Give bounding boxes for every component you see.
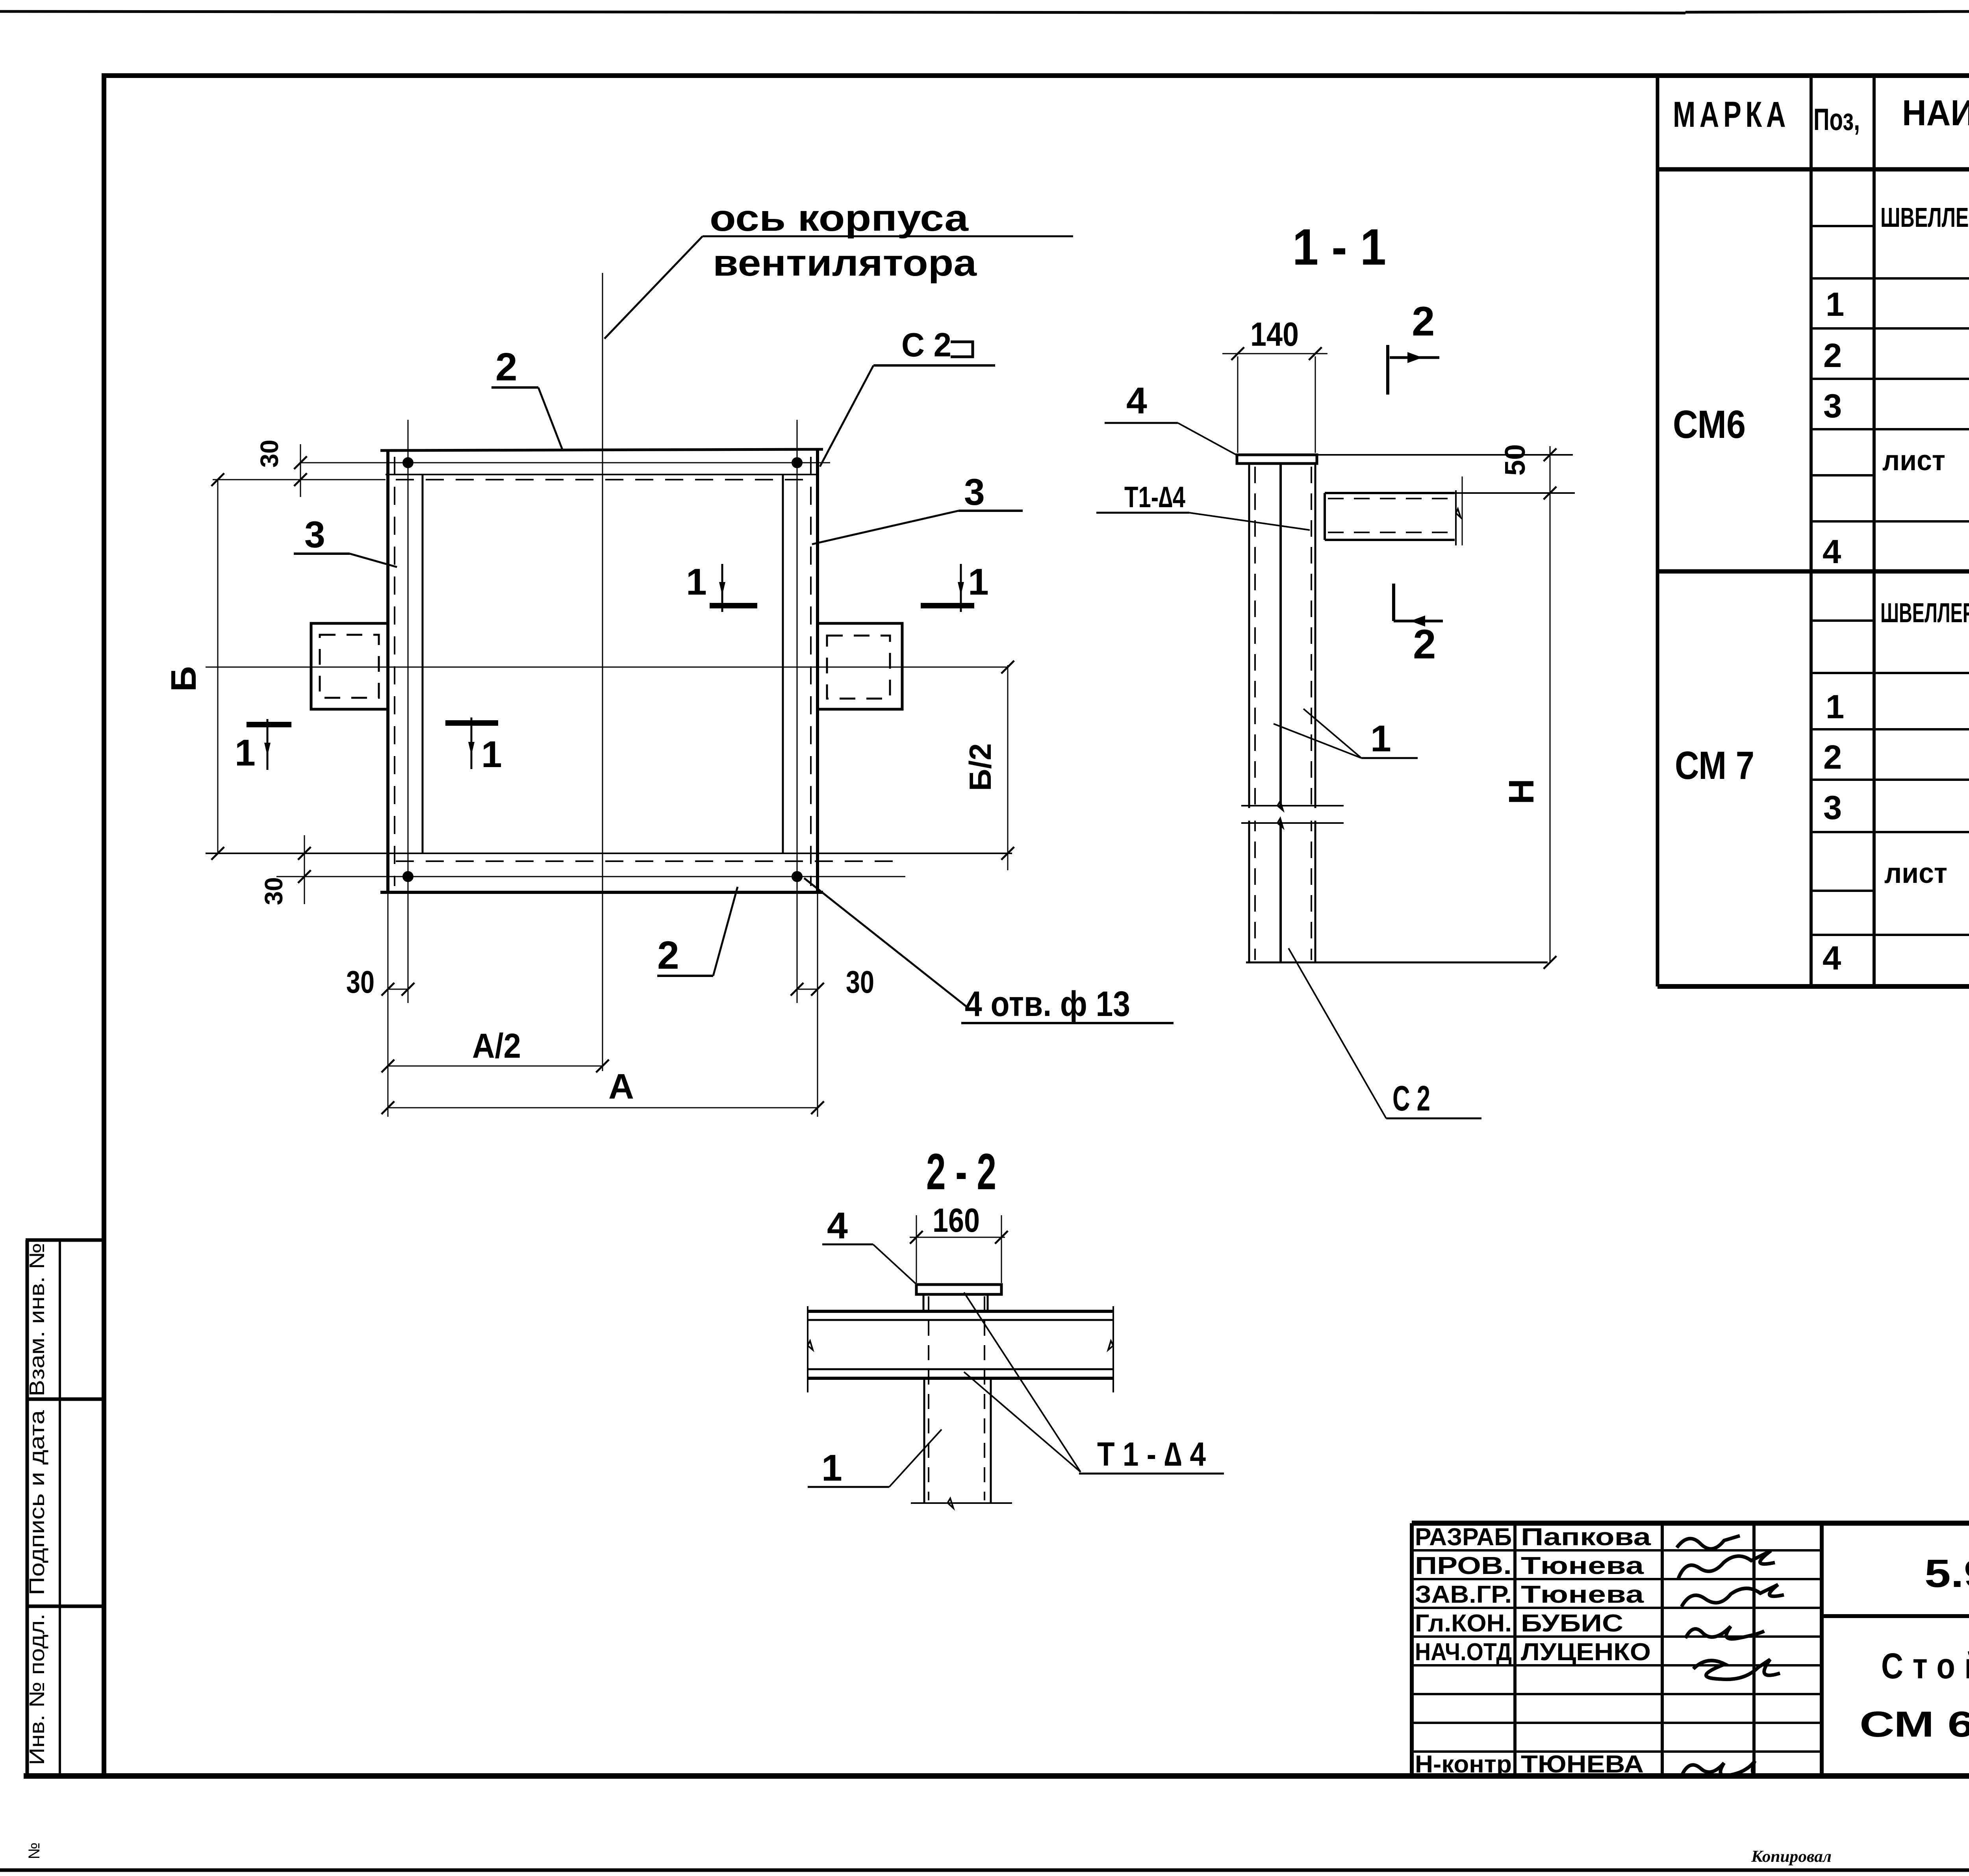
svg-text:30: 30 bbox=[255, 439, 284, 467]
svg-text:1: 1 bbox=[1826, 688, 1844, 726]
svg-text:Инв. № подл.: Инв. № подл. bbox=[25, 1614, 49, 1765]
svg-text:Папкова: Папкова bbox=[1521, 1524, 1651, 1551]
svg-text:Стойка: Стойка bbox=[1881, 1646, 1969, 1686]
svg-text:3: 3 bbox=[304, 514, 325, 556]
svg-text:Тюнева: Тюнева bbox=[1521, 1552, 1644, 1579]
svg-text:2: 2 bbox=[657, 933, 679, 977]
svg-text:СМ 7: СМ 7 bbox=[1675, 743, 1754, 788]
svg-text:Б: Б bbox=[164, 666, 204, 692]
svg-text:4: 4 bbox=[1126, 380, 1147, 422]
svg-text:№: № bbox=[26, 1843, 43, 1859]
svg-text:СМ6: СМ6 bbox=[1673, 402, 1746, 447]
svg-text:ТЮНЕВА: ТЮНЕВА bbox=[1521, 1751, 1644, 1778]
svg-text:1: 1 bbox=[821, 1447, 842, 1489]
svg-text:2: 2 bbox=[1412, 298, 1435, 345]
svg-text:Тюнева: Тюнева bbox=[1521, 1581, 1644, 1608]
svg-text:30: 30 bbox=[346, 964, 375, 999]
svg-text:3: 3 bbox=[964, 471, 985, 513]
svg-text:Подпись и дата: Подпись и дата bbox=[25, 1410, 49, 1595]
svg-text:ШВЕЛЛЕР: ШВЕЛЛЕР bbox=[1880, 202, 1969, 233]
svg-text:СМ 6 , СМ 7: СМ 6 , СМ 7 bbox=[1860, 1704, 1969, 1744]
svg-text:Взам. инв. №: Взам. инв. № bbox=[25, 1243, 49, 1396]
svg-text:1: 1 bbox=[235, 732, 256, 774]
svg-text:4: 4 bbox=[1823, 533, 1841, 571]
svg-text:ось корпуса: ось корпуса bbox=[710, 197, 969, 239]
svg-text:1: 1 bbox=[686, 561, 707, 603]
svg-text:ЛУЦЕНКО: ЛУЦЕНКО bbox=[1521, 1639, 1651, 1666]
svg-text:Поз,: Поз, bbox=[1813, 102, 1860, 137]
svg-text:лист: лист bbox=[1884, 858, 1947, 889]
svg-text:НАЧ.ОТД: НАЧ.ОТД bbox=[1415, 1639, 1512, 1666]
svg-text:160: 160 bbox=[933, 1202, 980, 1239]
svg-text:С 2: С 2 bbox=[901, 326, 951, 364]
svg-text:ПРОВ.: ПРОВ. bbox=[1415, 1552, 1512, 1579]
svg-text:30: 30 bbox=[260, 877, 288, 905]
svg-text:3: 3 bbox=[1823, 387, 1842, 425]
svg-text:1: 1 bbox=[1826, 286, 1844, 323]
svg-text:А/2: А/2 bbox=[472, 1026, 521, 1065]
svg-text:лист: лист bbox=[1882, 445, 1945, 476]
svg-text:2: 2 bbox=[1413, 621, 1436, 667]
svg-text:ЗАВ.ГР.: ЗАВ.ГР. bbox=[1415, 1581, 1512, 1608]
svg-text:Копировал: Копировал bbox=[1751, 1848, 1832, 1866]
svg-text:МАРКА: МАРКА bbox=[1673, 95, 1790, 135]
svg-text:Гл.КОН.: Гл.КОН. bbox=[1415, 1610, 1512, 1637]
svg-text:А: А bbox=[608, 1067, 634, 1107]
svg-text:4: 4 bbox=[1823, 940, 1841, 977]
svg-text:Т1-∆4: Т1-∆4 bbox=[1124, 480, 1185, 513]
svg-text:2 - 2: 2 - 2 bbox=[926, 1143, 996, 1200]
svg-text:30: 30 bbox=[846, 964, 874, 999]
svg-text:Т 1 - ∆ 4: Т 1 - ∆ 4 bbox=[1097, 1436, 1206, 1473]
svg-text:2: 2 bbox=[1823, 739, 1842, 776]
svg-text:4 отв. ф 13: 4 отв. ф 13 bbox=[965, 984, 1130, 1024]
svg-text:2: 2 bbox=[1823, 337, 1842, 374]
svg-text:4: 4 bbox=[827, 1205, 848, 1247]
svg-text:Н: Н bbox=[1502, 779, 1541, 805]
svg-text:1: 1 bbox=[1370, 718, 1391, 760]
svg-text:3: 3 bbox=[1823, 789, 1842, 827]
svg-text:РАЗРАБ: РАЗРАБ bbox=[1415, 1524, 1512, 1551]
svg-text:С 2: С 2 bbox=[1392, 1079, 1430, 1118]
svg-text:1: 1 bbox=[481, 734, 502, 775]
svg-text:140: 140 bbox=[1250, 316, 1299, 353]
svg-text:Б/2: Б/2 bbox=[963, 743, 997, 791]
svg-text:50: 50 bbox=[1500, 444, 1531, 476]
svg-text:1 - 1: 1 - 1 bbox=[1292, 218, 1386, 276]
svg-text:2: 2 bbox=[495, 345, 517, 389]
svg-text:БУБИС: БУБИС bbox=[1521, 1610, 1623, 1637]
svg-text:1: 1 bbox=[968, 561, 989, 603]
svg-text:вентилятора: вентилятора bbox=[713, 242, 977, 284]
svg-text:5.904 - 56.5 - 13: 5.904 - 56.5 - 13 bbox=[1925, 1552, 1969, 1596]
svg-text:ШВЕЛЛЕР: ШВЕЛЛЕР bbox=[1880, 597, 1969, 628]
svg-text:Н-контр: Н-контр bbox=[1415, 1751, 1512, 1778]
svg-text:НАИМЕНОВАНИЕ: НАИМЕНОВАНИЕ bbox=[1902, 93, 1969, 133]
